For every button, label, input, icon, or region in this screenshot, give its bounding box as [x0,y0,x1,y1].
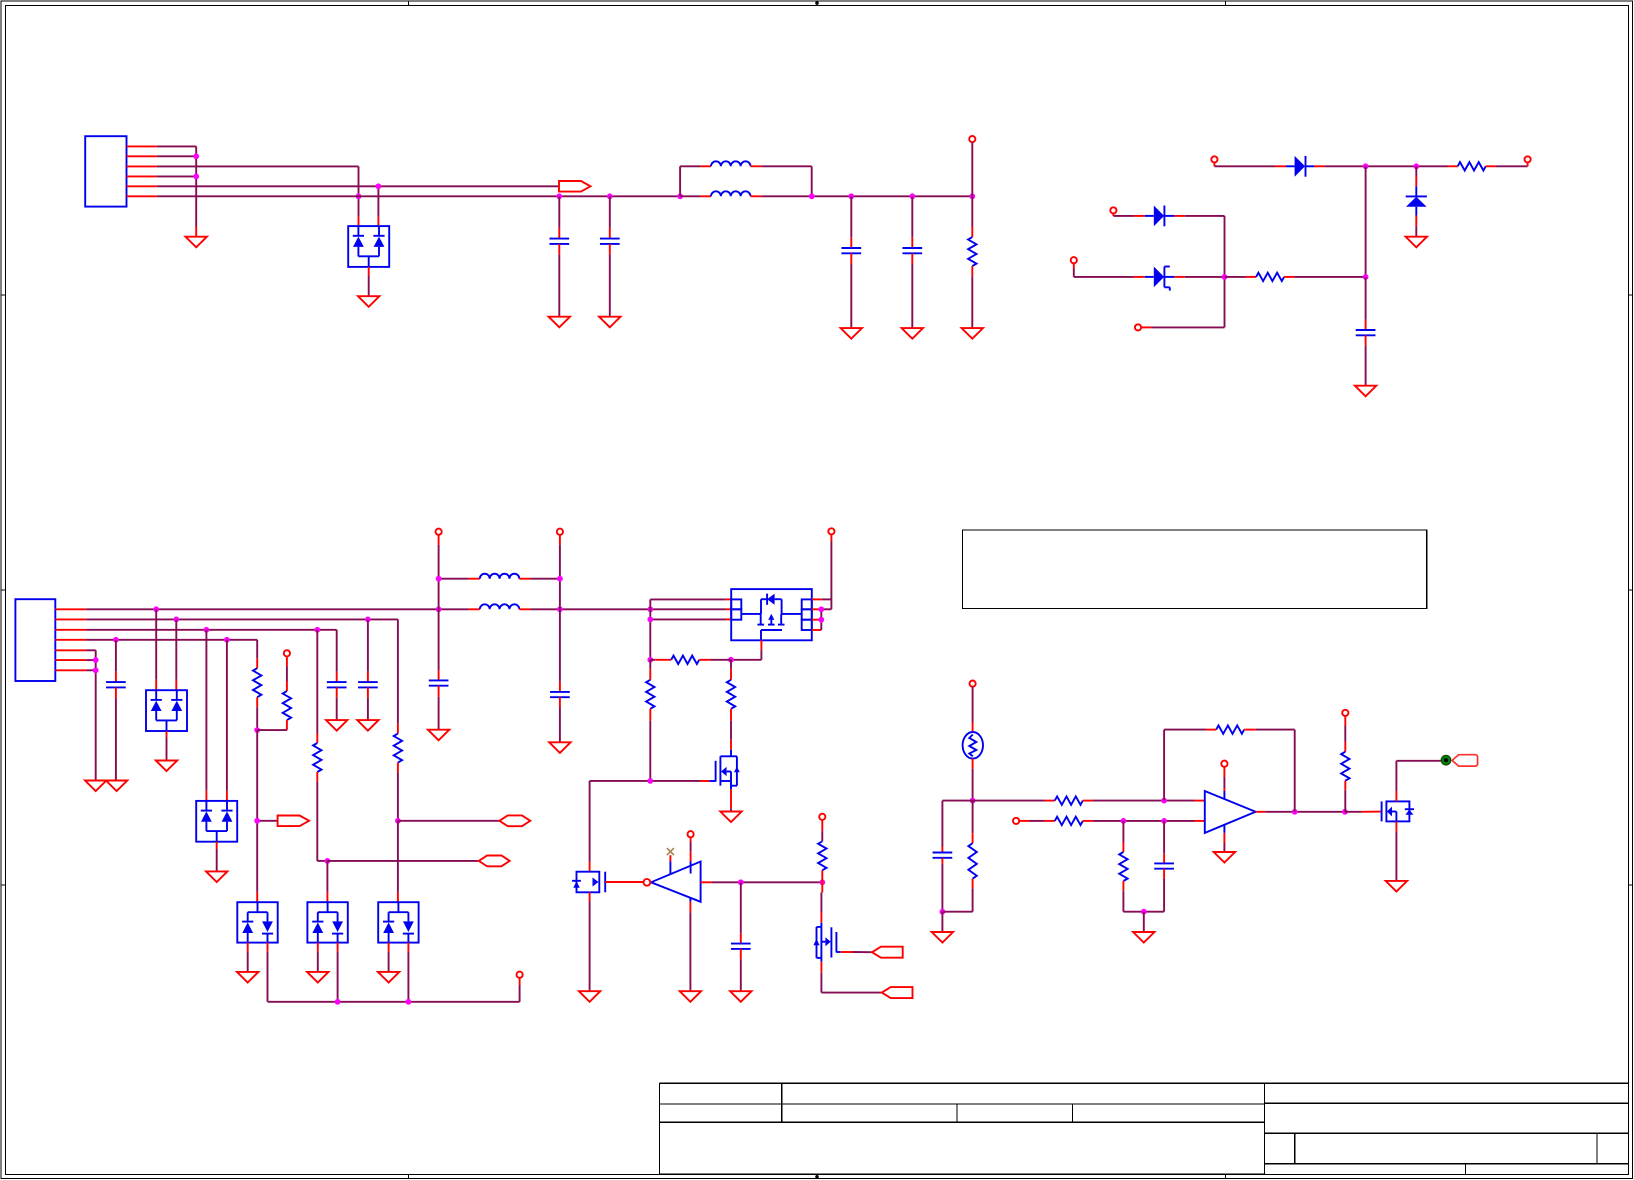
junction [314,627,320,633]
junction [1161,818,1167,824]
wire to diode D2 [1214,165,1286,167]
zener diode to ground [1406,166,1427,236]
wire to hex port [398,820,500,822]
junction [1161,798,1167,804]
wire Q5 source to ground [1395,821,1397,881]
junction [365,617,371,623]
ground [962,328,983,339]
title block (empty) [660,1083,1629,1174]
transistor Q4 [813,923,840,958]
transistor Q3 [572,872,605,893]
port flag right [559,181,591,192]
junction [93,667,99,673]
connector J1 [85,136,157,206]
terminal [1135,324,1225,330]
junction [1222,274,1228,280]
terminal and resistor R5 [257,650,291,730]
op-amp U5 [1205,791,1256,833]
resistor R9 to gate row [646,660,654,781]
junction [819,879,825,885]
junction [1342,809,1348,815]
ground [720,812,741,823]
ground [1406,237,1427,248]
terminal [828,528,834,609]
capacitor on pin4 [106,640,126,781]
junction [557,606,563,612]
wire pin4 [157,175,196,177]
capacitor branch left [933,801,973,912]
capacitor to ground [1356,277,1376,386]
resistor branch down [942,801,976,912]
inverter U3 [644,862,701,902]
wire to diode pair V2 [206,630,227,801]
terminal [1525,156,1531,162]
wire node to lower row [1365,166,1367,277]
terminal [969,136,975,196]
transistor Q5 [1382,801,1414,821]
wire bottom rail to terminal [268,978,520,1002]
junction [1121,818,1127,824]
junction [335,999,341,1005]
resistor R13 plus input path [973,796,1205,804]
wire pin3 to diode pair [157,166,359,226]
junction [93,657,99,663]
resistor R4 on pin4 net [253,640,261,730]
junction [153,606,159,612]
ground [326,720,347,731]
junction [940,909,946,915]
junction [969,193,975,199]
port flag left [882,987,913,998]
terminal [1013,818,1045,824]
junction [254,727,260,733]
wire inverter bottom pin to ground [689,898,691,991]
resistor to ground [968,196,976,328]
wire diode to resistor [1325,165,1458,167]
wire Q2 source to ground [730,789,732,811]
wire TVS left pin to ground [247,943,249,972]
junction [818,617,824,623]
ground [106,781,127,792]
wire op-amp output [1256,811,1345,813]
ground [932,932,953,943]
terminal [1211,156,1217,166]
junction [254,818,260,824]
junction [173,617,179,623]
wire to TVS2 [326,861,328,902]
ground [730,991,751,1002]
junction [647,657,653,663]
inductor pair L3 L4 with terminals [436,529,564,610]
wire pin1 main rail [86,604,731,609]
wire Q4 gate to port [841,951,872,953]
inductor pair L1 L2 [680,161,812,196]
junction [909,193,915,199]
junction [1413,163,1419,169]
junction [557,576,563,582]
empty note rectangle [963,530,1427,609]
ground [579,991,600,1002]
wire inverter output [701,881,823,883]
ground [307,972,328,983]
wire TVS right pin down [337,943,339,1002]
junction [436,576,442,582]
ground [549,317,570,328]
ground [206,871,227,882]
junction [647,606,653,612]
junction [728,657,734,663]
junction [193,153,199,159]
diode pair V2 [196,801,237,842]
wire pins 5-7 to ground [86,650,96,780]
junction [1363,274,1369,280]
zener diode D4 branch [1074,267,1225,291]
resistor R7 branch [394,619,402,820]
resistor R14 minus input path [1045,817,1205,825]
resistor R6 branch [313,630,327,861]
wire to Q4 drain [820,882,823,922]
wire to ground [941,912,943,932]
junction [677,193,683,199]
diode D2 [1286,156,1325,177]
LED indicator with port [1441,755,1478,766]
ground [237,972,258,983]
junction [406,999,412,1005]
terminal and resistor R11 [818,814,826,883]
ground [549,742,570,753]
wire to port and TVS1 [257,730,277,902]
capacitor below L3 [429,609,449,729]
wire module gate to divider [731,640,761,660]
capacitor on pin3 net [327,630,347,720]
diode D3 branch [1113,206,1224,328]
wire pin2 row [86,618,398,620]
ground [358,296,379,307]
inverter power pin terminal [688,831,694,873]
ground [85,781,106,792]
capacitor to ground rail [1144,821,1174,912]
wire Q3 gate to inverter [605,881,643,883]
capacitor [902,196,922,328]
ground [1355,386,1376,397]
wire pin1 to ground [157,146,196,236]
terminal [1071,257,1077,277]
resistor R15 to ground rail [1119,821,1144,912]
TVS diode pair Z2 [307,902,347,942]
wire Q3 source to ground [589,892,591,991]
junction [647,617,653,623]
junction [818,606,824,612]
junction [395,818,401,824]
TVS diode pair Z1 [237,902,277,942]
junction [356,193,362,199]
wire gate row [590,781,710,872]
capacitor [600,196,620,316]
junction [193,174,199,180]
ground [1386,881,1407,892]
ground [378,972,399,983]
wire rail to RC load [812,195,973,197]
wire pin3 row [86,629,337,631]
diode pair D1 [348,226,389,267]
TVS diode pair Z3 [378,902,418,942]
wire TVS right pin down [267,943,269,1002]
ground [186,237,207,248]
junction [1141,909,1147,915]
wire TVS left pin to ground [317,943,319,972]
junction [325,858,331,864]
ground [428,730,449,741]
wire V2 to ground [216,842,218,872]
terminal and resistor R17 [1341,710,1349,812]
junction [204,627,210,633]
op-amp ground pin [1223,825,1225,852]
ground [841,328,862,339]
capacitor [841,196,861,328]
terminal [1110,207,1116,216]
ground [1133,932,1154,943]
wire Q4 source to port [821,958,881,993]
wire pin4 row [86,639,257,641]
port hexagon [479,856,510,867]
junction [647,778,653,784]
capacitor on pin2 net [358,619,378,720]
wire pin6 rail [157,195,680,197]
resistor R8 [650,656,731,664]
thermistor RT1 [963,732,983,759]
wire module right pins [812,599,832,630]
ground [902,328,923,339]
junction [1363,163,1369,169]
wire diode pair to ground [368,267,370,296]
wire to hex port [327,860,478,862]
junction [224,637,230,643]
junction [607,193,613,199]
capacitor below L4 [550,609,570,742]
port flag right [278,816,310,827]
wire feed to module pins [650,599,731,659]
wire V1 to ground [166,731,168,761]
port hexagon [499,815,530,826]
junction [376,183,382,189]
MOSFET module U2 [731,589,812,640]
junction [556,193,562,199]
wire Q5 drain to indicator [1396,761,1441,802]
junction [113,637,119,643]
terminal [517,972,523,978]
wire to diode pair V1 [156,609,176,690]
wire TVS right pin down [407,943,409,1002]
capacitor on output [731,882,751,991]
resistor R2 [1458,162,1528,170]
wire pin2 [157,155,196,157]
wire to TVS3 [397,821,399,902]
resistor R10 to Q2 drain [727,660,735,740]
op-amp power pin terminal [1221,761,1227,799]
ground [357,720,378,731]
no-connect X pin [667,848,674,874]
wire pin5 to port [157,186,559,226]
diode pair V1 [146,690,187,731]
junction [436,606,442,612]
feedback resistor R16 [1246,730,1295,812]
terminal [970,681,976,733]
resistor R16 body [1164,725,1246,800]
connector J2 [15,599,86,681]
junction [809,193,815,199]
wire TVS left pin to ground [388,943,390,972]
wire thermistor to node [972,759,974,801]
junction [970,798,976,804]
ground [599,317,620,328]
resistor R3 [1225,273,1366,281]
wire to ground [1143,912,1145,932]
junction [1292,809,1298,815]
wire to Q5 gate [1345,811,1382,813]
ground [680,991,701,1002]
port flag left [872,947,903,958]
junction [848,193,854,199]
junction [738,879,744,885]
ground [1214,852,1235,863]
ground [156,761,177,772]
capacitor [549,196,569,316]
transistor Q2 [709,740,740,790]
